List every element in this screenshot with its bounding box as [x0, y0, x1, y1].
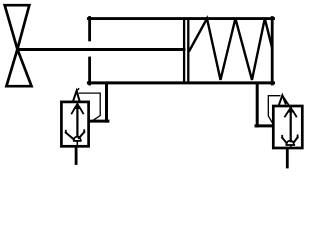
- flow control valve V2: body box: [273, 106, 302, 148]
- V2: bypass hook line: [268, 96, 280, 125]
- V1: bypass hook line: [79, 93, 100, 121]
- V2: bottom port stub: [286, 150, 289, 168]
- V2: adjuster caret above box: [279, 95, 285, 104]
- return spring: [190, 19, 273, 80]
- rod-end tool W1 (bowtie) top triangle: [5, 5, 30, 49]
- V1: check valve seat right: [79, 132, 84, 138]
- V2: check valve seat right: [294, 137, 298, 142]
- pipe: right cylinder port down: [256, 84, 259, 126]
- V1: check valve ball: [74, 137, 81, 141]
- V1: adjuster caret above box: [73, 91, 79, 101]
- V1: flow arrowhead: [74, 103, 81, 108]
- piston rod: [17, 48, 184, 51]
- V2: throttle arc left: [285, 111, 289, 116]
- V2: check valve bottom stub: [290, 145, 292, 148]
- V1: check valve seat left: [66, 133, 74, 140]
- cylinder body: right end cap: [271, 18, 274, 85]
- V2: check valve seat left: [282, 138, 286, 143]
- V1: throttle arc right: [80, 108, 84, 114]
- V2: check valve ball: [287, 141, 294, 145]
- V2: flow arrowhead: [288, 107, 294, 112]
- flow control valve V1: body box: [61, 102, 88, 146]
- cylinder body: left end cap lower segment: [88, 58, 91, 84]
- V2: check valve ball base: [286, 144, 294, 146]
- cylinder body: left end cap upper segment: [88, 18, 91, 40]
- V2: check valve seat serif right: [297, 135, 299, 137]
- V1: check valve seat serif right: [83, 130, 85, 132]
- V1: bottom port stub: [75, 147, 78, 164]
- V1: internal flow line: [76, 105, 78, 137]
- V2: throttle arc right: [293, 111, 296, 116]
- piston line 2: [187, 20, 189, 83]
- V1: check valve seat serif left: [65, 131, 67, 133]
- V1: check valve ball base: [74, 140, 81, 142]
- V2: check valve seat serif left: [281, 136, 283, 138]
- piston line 1: [183, 20, 185, 83]
- V1: adjuster tip: [77, 89, 79, 91]
- pipe: left cylinder port down: [105, 84, 108, 121]
- rod-end tool W1 (bowtie) bottom triangle: [6, 49, 31, 86]
- V2: internal flow line: [290, 109, 292, 142]
- V1: check valve bottom stub: [76, 141, 78, 145]
- cylinder body: top edge: [88, 17, 273, 20]
- pipe: right elbow to valve V2 left side: [256, 124, 273, 127]
- V1: throttle arc left: [72, 108, 76, 114]
- pipe: left elbow to valve V1 right side: [90, 120, 108, 123]
- V2: adjuster diagonal arrow: [283, 96, 292, 110]
- cylinder body: bottom edge: [88, 81, 273, 84]
